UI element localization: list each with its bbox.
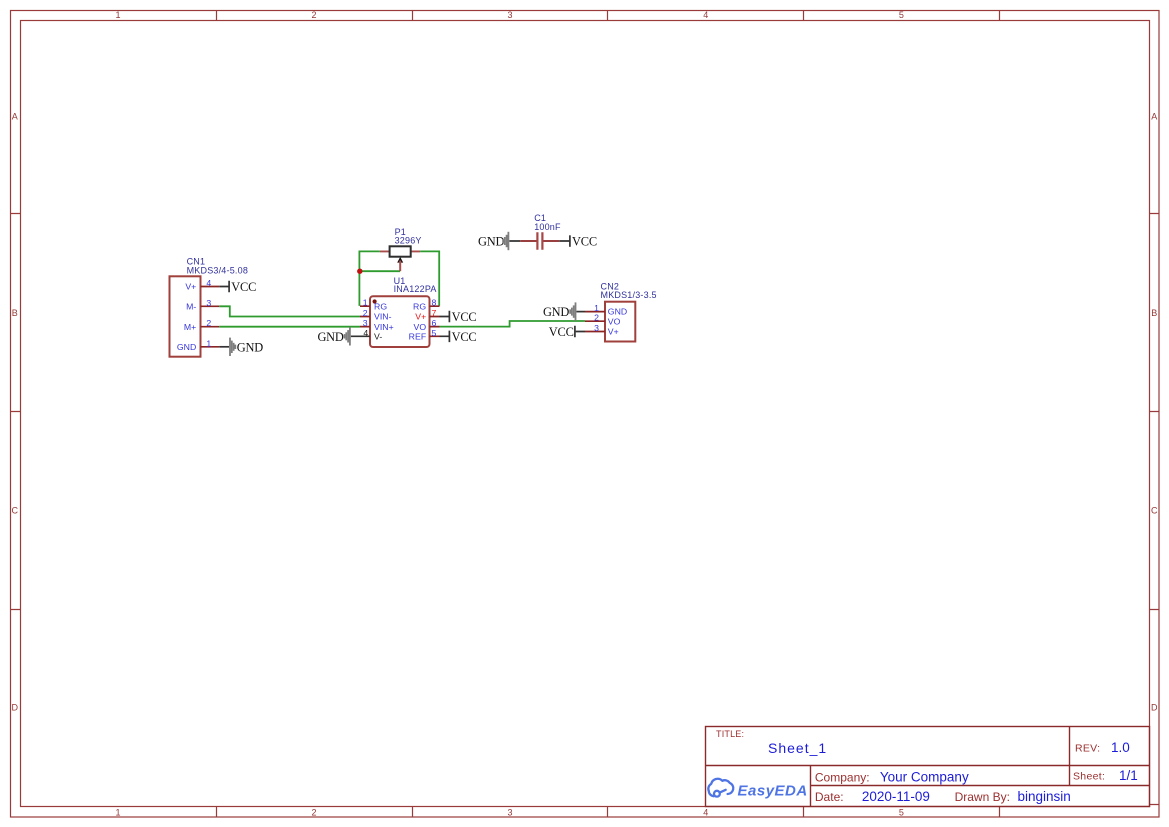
svg-text:6: 6 <box>432 318 437 328</box>
svg-text:VCC: VCC <box>452 330 477 344</box>
svg-text:C: C <box>1151 506 1158 516</box>
svg-text:3: 3 <box>507 808 512 818</box>
svg-text:A: A <box>12 112 18 122</box>
svg-text:GND: GND <box>608 307 627 317</box>
svg-text:2: 2 <box>594 313 599 323</box>
svg-text:VO: VO <box>414 322 427 332</box>
svg-text:Sheet:: Sheet: <box>1073 770 1105 782</box>
svg-text:5: 5 <box>899 10 904 20</box>
svg-text:Your Company: Your Company <box>880 769 969 784</box>
svg-text:Drawn By:: Drawn By: <box>955 790 1010 804</box>
svg-text:REV:: REV: <box>1075 743 1100 755</box>
svg-text:REF: REF <box>409 332 427 342</box>
svg-text:1.0: 1.0 <box>1111 740 1130 755</box>
svg-text:EasyEDA: EasyEDA <box>738 782 808 799</box>
svg-text:3: 3 <box>507 10 512 20</box>
svg-text:VCC: VCC <box>549 325 574 339</box>
svg-text:8: 8 <box>432 298 437 308</box>
svg-text:binginsin: binginsin <box>1018 789 1071 804</box>
svg-text:2: 2 <box>311 10 316 20</box>
svg-text:A: A <box>1151 112 1157 122</box>
svg-text:INA122PA: INA122PA <box>394 284 437 294</box>
svg-text:GND: GND <box>237 340 263 354</box>
svg-text:3296Y: 3296Y <box>395 236 422 246</box>
svg-text:3: 3 <box>206 298 211 308</box>
svg-text:V-: V- <box>374 332 382 342</box>
svg-text:RG: RG <box>374 301 387 311</box>
svg-text:Company:: Company: <box>815 770 870 784</box>
svg-text:GND: GND <box>543 305 569 319</box>
svg-text:B: B <box>12 308 18 318</box>
svg-text:1: 1 <box>115 10 120 20</box>
svg-text:Date:: Date: <box>815 790 844 804</box>
svg-text:1: 1 <box>363 298 368 308</box>
svg-text:VCC: VCC <box>452 310 477 324</box>
svg-text:B: B <box>1151 308 1157 318</box>
svg-text:2: 2 <box>311 808 316 818</box>
svg-text:GND: GND <box>317 330 343 344</box>
svg-text:MKDS3/4-5.08: MKDS3/4-5.08 <box>187 265 248 275</box>
svg-text:VIN+: VIN+ <box>374 322 394 332</box>
svg-text:1: 1 <box>594 303 599 313</box>
svg-text:1: 1 <box>115 808 120 818</box>
svg-text:2020-11-09: 2020-11-09 <box>862 789 930 804</box>
svg-text:7: 7 <box>432 308 437 318</box>
svg-text:4: 4 <box>703 808 708 818</box>
svg-text:5: 5 <box>899 808 904 818</box>
svg-text:4: 4 <box>206 278 211 288</box>
svg-text:VCC: VCC <box>572 235 597 249</box>
svg-text:M+: M+ <box>184 322 196 332</box>
svg-text:GND: GND <box>177 342 196 352</box>
svg-text:V+: V+ <box>185 282 196 292</box>
svg-text:VIN-: VIN- <box>374 312 392 322</box>
svg-text:4: 4 <box>703 10 708 20</box>
svg-text:5: 5 <box>432 328 437 338</box>
svg-text:RG: RG <box>413 301 426 311</box>
svg-text:2: 2 <box>206 318 211 328</box>
svg-text:D: D <box>11 703 18 713</box>
svg-text:C: C <box>11 506 18 516</box>
svg-text:TITLE:: TITLE: <box>716 729 744 739</box>
svg-text:VO: VO <box>608 316 621 326</box>
svg-text:Sheet_1: Sheet_1 <box>768 740 827 756</box>
svg-text:2: 2 <box>363 308 368 318</box>
svg-text:VCC: VCC <box>231 280 256 294</box>
svg-text:1/1: 1/1 <box>1119 768 1138 783</box>
svg-text:V+: V+ <box>415 312 426 322</box>
svg-text:MKDS1/3-3.5: MKDS1/3-3.5 <box>601 290 657 300</box>
svg-text:3: 3 <box>594 323 599 333</box>
svg-text:D: D <box>1151 703 1158 713</box>
svg-text:1: 1 <box>206 338 211 348</box>
svg-text:4: 4 <box>363 328 368 338</box>
svg-text:3: 3 <box>363 318 368 328</box>
svg-text:V+: V+ <box>608 327 619 337</box>
svg-text:100nF: 100nF <box>534 222 561 232</box>
svg-text:M-: M- <box>186 301 196 311</box>
svg-text:GND: GND <box>478 235 504 249</box>
